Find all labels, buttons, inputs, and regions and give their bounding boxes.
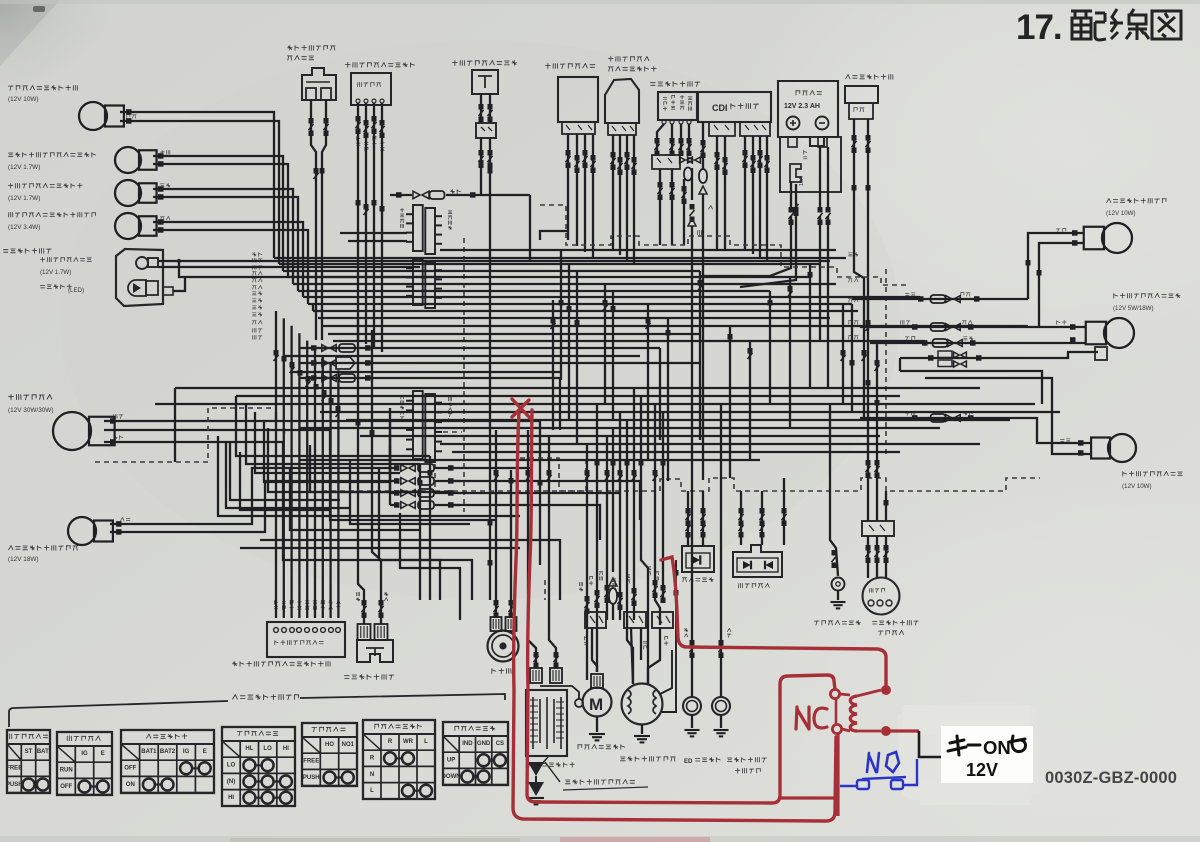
wire side stand pilot pair — [153, 156, 283, 271]
wire starter kill switch leads — [357, 103, 359, 340]
svg-text:IND: IND — [462, 741, 473, 747]
label horn — [492, 669, 511, 674]
wire frame earth lead — [830, 404, 838, 576]
red NC box bottom edge — [780, 734, 838, 816]
starter motor — [583, 688, 612, 717]
label front stop switch — [288, 45, 336, 50]
wire ED switch lead — [691, 480, 693, 698]
wire R rear winker leads — [1028, 233, 1083, 299]
svg-text:(12V 5W/18W): (12V 5W/18W) — [1113, 305, 1154, 312]
svg-text:(12V 30W/30W): (12V 30W/30W) — [8, 407, 53, 414]
wire neutral switch lead — [720, 440, 722, 698]
connector column labels upper — [400, 208, 404, 212]
svg-text:(12V 18W): (12V 18W) — [8, 556, 39, 563]
wire side stand switch leads — [867, 300, 869, 521]
wire staircase extras — [290, 467, 420, 530]
table winker switch — [363, 720, 435, 799]
table horn switch — [302, 723, 357, 786]
main switch — [658, 92, 697, 120]
red annotation left outer line — [513, 412, 836, 821]
wire staircase fan left — [174, 388, 176, 462]
svg-text:HI: HI — [228, 795, 234, 801]
wire extra verticals center — [552, 300, 554, 430]
label diode 1 — [682, 578, 713, 582]
svg-text:M: M — [589, 695, 603, 714]
ignition coil — [526, 690, 567, 756]
label L front winker lamp — [9, 545, 78, 550]
wire AC generator ground — [641, 724, 643, 734]
wire loop below stop tail — [925, 378, 1092, 454]
label starter motor — [578, 745, 625, 750]
table kill switch — [57, 732, 112, 795]
wire diode1 leads — [687, 491, 689, 546]
winker relay connector — [849, 103, 873, 119]
svg-text:CDI: CDI — [712, 103, 728, 113]
svg-text:IG: IG — [81, 751, 88, 757]
diode 1 — [682, 546, 714, 572]
lamp winker pilot — [115, 180, 141, 206]
wire winker pilot pair — [153, 189, 293, 284]
switch table legend bracket — [9, 701, 228, 727]
svg-text:E: E — [203, 749, 207, 755]
wire stop tail row brown-white — [860, 326, 1086, 328]
label stop and tail lamp — [1114, 293, 1180, 298]
label winker dimmer horn switch — [233, 661, 331, 666]
wire winker relay leads — [854, 119, 864, 310]
label winker relay — [846, 74, 893, 79]
label neutral switch — [727, 757, 766, 762]
wire main switch leads — [662, 120, 666, 124]
lamp side stand pilot — [115, 147, 141, 173]
svg-text:(12V 1.7W): (12V 1.7W) — [40, 269, 71, 276]
svg-text:LO: LO — [263, 746, 272, 752]
label switch connection legend — [233, 695, 299, 700]
label frame earth — [814, 621, 860, 626]
svg-text:HI: HI — [283, 746, 289, 752]
svg-text:ED: ED — [684, 759, 693, 765]
wire-end color labels left band — [253, 253, 262, 257]
wire headlight three leads — [104, 421, 540, 565]
label starter relay — [546, 64, 595, 69]
svg-text:LO: LO — [227, 763, 236, 769]
wire neutral switch ground — [720, 715, 722, 728]
speedometer housing — [116, 249, 163, 306]
ground arrow below spark plug — [528, 782, 544, 796]
svg-text:12V: 12V — [966, 760, 998, 780]
wire starter relay leads — [567, 134, 569, 240]
svg-text:IG: IG — [183, 749, 190, 755]
battery 12V 2.3AH — [778, 81, 838, 146]
lamp neutral pilot — [115, 213, 141, 239]
wire WDH bundle top bends — [275, 412, 277, 420]
svg-text:R: R — [370, 756, 375, 762]
wire rear stop switch leads — [480, 94, 482, 123]
winker dimmer horn switch box — [267, 622, 345, 657]
starter relay — [558, 77, 598, 122]
key-on white box — [941, 726, 1033, 783]
bullet connector on wire 613 — [609, 578, 617, 586]
wire band D line through red X — [155, 403, 1035, 405]
starter relay connector — [562, 122, 595, 134]
svg-text:OFF: OFF — [60, 784, 72, 790]
diode 2 — [733, 545, 782, 577]
wire R front winker pair — [120, 112, 274, 258]
label rear stop switch — [453, 61, 517, 66]
svg-text:(12V 1.7W): (12V 1.7W) — [8, 164, 40, 171]
title kanji zu — [1152, 11, 1181, 39]
wire stop tail ground row — [900, 352, 1098, 358]
label side stand switch — [872, 620, 918, 625]
wire WDH switch bundle — [275, 311, 277, 618]
svg-text:(N): (N) — [227, 779, 235, 785]
wire regulator leads — [612, 135, 614, 250]
label AC generator — [620, 756, 675, 761]
clutch switch — [357, 640, 393, 662]
wire front stop switch leads — [311, 100, 316, 340]
title kanji sen — [1110, 9, 1149, 40]
label speedometer — [3, 248, 51, 253]
ED switch — [683, 697, 701, 715]
main switch inline bowties — [680, 157, 686, 163]
red NC letters — [796, 707, 827, 729]
wire ignition coil leads — [528, 430, 536, 668]
wire-end labels right lamps — [1056, 229, 1066, 233]
blue NO letters — [867, 752, 899, 772]
meter illumination bulb — [136, 257, 148, 269]
wire vertical drops center to engine components — [586, 444, 588, 680]
wire right columns from battery area down — [819, 300, 821, 341]
rear stop switch connector — [476, 123, 496, 138]
wire bus band B horizontals — [313, 310, 858, 312]
bottom edge pink smudge — [560, 837, 710, 842]
connector column lower six — [413, 391, 423, 459]
label clutch switch — [345, 675, 394, 680]
red line to key-on box — [890, 729, 919, 732]
svg-text:(LED): (LED) — [68, 287, 84, 294]
wire extra band horizontals — [340, 232, 407, 234]
table starter switch — [7, 730, 50, 793]
wire clutch switch leads — [358, 320, 364, 624]
svg-text:BAT: BAT — [37, 749, 49, 755]
wire engine-top box leads — [592, 628, 597, 672]
label R rear winker lamp — [1107, 198, 1167, 203]
label meter illumination lamp — [40, 257, 91, 262]
regulator connector — [608, 123, 636, 135]
svg-text:FREE: FREE — [303, 759, 319, 765]
slash marks scatter — [314, 173, 319, 179]
svg-text:(12V 10W): (12V 10W) — [1106, 210, 1136, 217]
svg-text:GND: GND — [477, 741, 491, 747]
stop tail sub connector — [1095, 347, 1107, 360]
label speed warning LED — [40, 284, 71, 289]
blue NO contact squares — [857, 780, 869, 789]
connector column mid — [413, 259, 423, 305]
white-out smudge patch — [897, 702, 1041, 802]
svg-text:(12V 10W): (12V 10W) — [8, 96, 39, 103]
key-on text line 1 katakana ki + dash + ON + de — [948, 736, 980, 755]
label main switch — [651, 82, 700, 87]
side stand connector — [862, 521, 894, 536]
label headlight — [9, 395, 52, 400]
horn — [488, 631, 519, 662]
red annotation right branch from mesh — [661, 557, 886, 685]
svg-text:OFF: OFF — [124, 766, 136, 772]
CDI unit — [698, 92, 771, 122]
lamp R front winker — [79, 102, 107, 130]
wire CDI leads — [702, 122, 704, 170]
scan corner shading top-left — [0, 0, 110, 90]
CDI 3P connector — [709, 122, 735, 136]
table dimmer switch — [222, 727, 295, 806]
wire ED switch ground — [691, 715, 693, 728]
spark plug arrow — [528, 756, 544, 776]
wire-end labels headlight and winker — [127, 115, 136, 119]
wire horn leads — [495, 430, 497, 617]
svg-text:NO1: NO1 — [342, 742, 355, 748]
svg-text:HL: HL — [245, 746, 253, 752]
connector column lower labels — [400, 396, 404, 399]
table main switch — [121, 730, 214, 793]
neutral switch — [712, 697, 730, 715]
label spark plug — [528, 762, 574, 767]
wire-end color labels right band — [848, 253, 858, 257]
lamp L rear winker — [1108, 434, 1136, 462]
svg-text:L: L — [370, 788, 374, 794]
wire band E inline connector rows — [390, 467, 398, 469]
svg-text:(12V 3.4W): (12V 3.4W) — [8, 224, 40, 231]
svg-text:DOWN: DOWN — [442, 774, 461, 780]
lamp headlight — [53, 412, 91, 450]
svg-text:ON: ON — [983, 737, 1011, 758]
label diode 2 — [739, 583, 770, 588]
speed warning LED — [128, 280, 146, 296]
inline connector row to R rear winker — [852, 298, 1028, 300]
wire bus band A horizontals — [274, 257, 846, 259]
winker relay — [845, 86, 878, 103]
red relay NC contact circles — [830, 689, 839, 698]
wire staircase fan second set — [268, 428, 420, 492]
wire band C with inline connectors — [299, 347, 660, 349]
label winker pilot lamp — [8, 183, 82, 188]
wire vertical terminal clusters above engine — [585, 596, 590, 602]
label ignition coil with leader — [545, 762, 560, 782]
svg-text:FREE: FREE — [6, 766, 22, 772]
svg-text:17.: 17. — [1016, 8, 1062, 47]
svg-text:BAT1: BAT1 — [141, 749, 157, 755]
inline row labels middle — [905, 293, 915, 296]
front stop switch — [302, 68, 336, 100]
wire starter motor hook — [540, 686, 579, 699]
wire nested corner risers left — [312, 304, 314, 311]
harness dashed outline — [540, 205, 906, 285]
red junction dots — [881, 685, 891, 695]
table side stand switch — [443, 722, 508, 785]
wire neutral pilot pair — [153, 222, 303, 297]
svg-text:E: E — [101, 751, 105, 757]
wire diode2 leads — [740, 491, 742, 545]
label neutral pilot lamp — [9, 212, 96, 217]
wire L rear winker row — [860, 418, 1092, 443]
svg-text:UP: UP — [447, 758, 455, 764]
red annotation X mark — [512, 399, 530, 418]
svg-text:(12V 1.7W): (12V 1.7W) — [8, 195, 40, 202]
wire band D horizontals — [175, 387, 980, 389]
red annotation left inner line — [527, 410, 835, 803]
svg-text:ST: ST — [25, 749, 33, 755]
side stand switch body — [863, 578, 900, 615]
main switch 2P connector — [652, 155, 680, 169]
regulator rectifier — [605, 79, 639, 123]
battery minus terminal — [816, 117, 829, 130]
label starter kill switch — [345, 62, 414, 67]
wire staircase fan descend to WDH bundle — [429, 456, 431, 600]
svg-text:0030Z-GBZ-0000: 0030Z-GBZ-0000 — [1045, 769, 1177, 787]
svg-text:PUSH: PUSH — [6, 782, 23, 788]
svg-text:10A: 10A — [799, 176, 805, 186]
battery plus terminal — [787, 117, 800, 130]
svg-text:R: R — [388, 739, 393, 745]
label R front winker lamp — [8, 85, 77, 90]
title kanji hai — [1071, 11, 1106, 40]
wire battery leads — [790, 182, 792, 208]
black annotation wire to white box — [918, 731, 941, 758]
rear stop switch — [472, 70, 498, 94]
frame earth ring terminal — [832, 578, 845, 591]
red relay coil — [850, 696, 857, 731]
label side stand pilot lamp — [8, 152, 95, 157]
lamp R rear winker — [1102, 223, 1132, 253]
wire stop tail row brown — [870, 342, 1086, 344]
terminal tick scatter on mesh wires — [314, 168, 319, 174]
svg-text:(12V 10W): (12V 10W) — [1122, 483, 1152, 490]
svg-text:N: N — [370, 772, 374, 778]
label regulator rectifier — [608, 56, 649, 61]
connector column upper — [413, 205, 423, 251]
AC generator — [622, 684, 663, 725]
svg-text:HO: HO — [325, 742, 334, 748]
svg-text:ON: ON — [126, 782, 135, 788]
wire AC generator side links — [660, 650, 672, 694]
wire speedometer outputs — [158, 260, 830, 262]
blue wire segments — [840, 759, 917, 786]
engine-top connector boxes — [585, 612, 606, 628]
starter kill switch — [351, 73, 391, 105]
lamp stop and tail — [1104, 318, 1134, 348]
wire L front winker pair — [110, 468, 392, 524]
svg-text:CS: CS — [496, 741, 504, 747]
battery fuse compartment — [780, 137, 841, 192]
label L rear winker lamp — [1123, 471, 1183, 476]
svg-text:L: L — [424, 739, 428, 745]
svg-text:BAT2: BAT2 — [160, 749, 176, 755]
svg-text:PUSH: PUSH — [303, 775, 320, 781]
svg-text:WR: WR — [403, 739, 414, 745]
CDI 4P connector — [740, 122, 770, 136]
svg-text:RUN: RUN — [60, 768, 73, 774]
svg-text:12V 2.3 AH: 12V 2.3 AH — [784, 103, 820, 110]
lamp L front winker — [68, 517, 96, 545]
fuse 10A — [790, 164, 801, 182]
wire starter motor ground — [596, 717, 598, 732]
ignition coil connectors — [530, 668, 542, 683]
inline connector rear-stop to harness — [390, 194, 412, 196]
